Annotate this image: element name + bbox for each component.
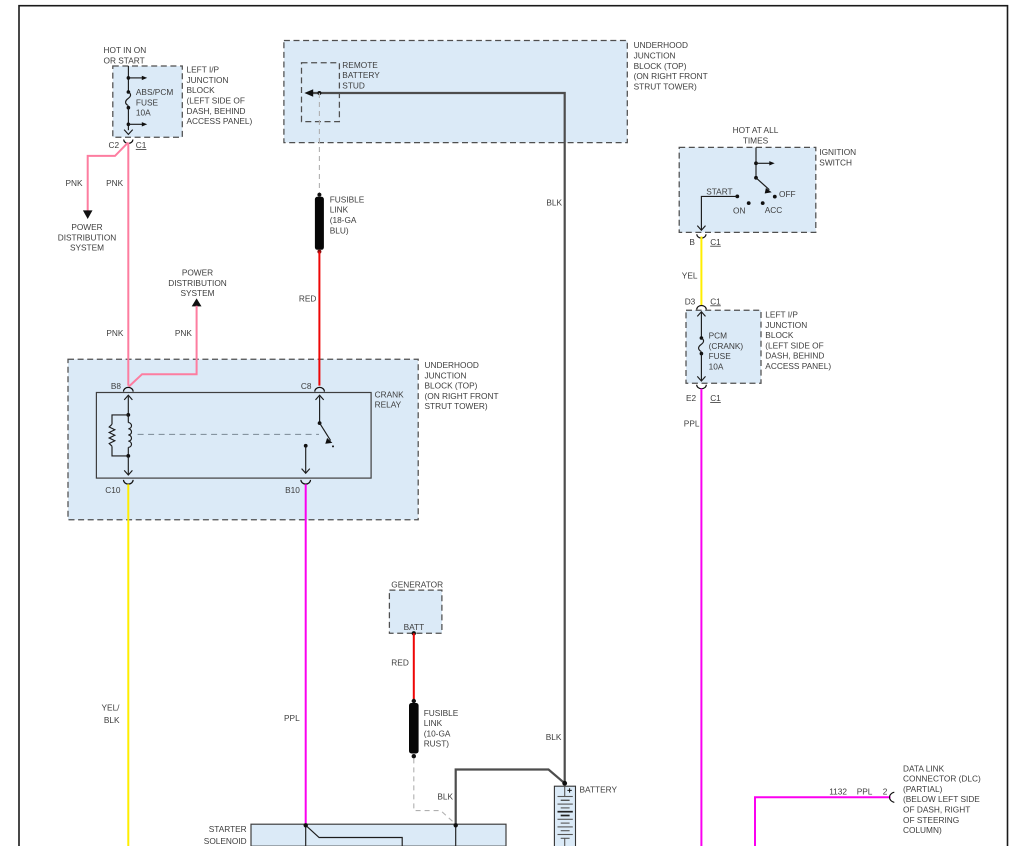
svg-text:RUST): RUST) <box>424 739 450 749</box>
svg-text:ABS/PCM: ABS/PCM <box>136 87 173 97</box>
svg-text:(LEFT SIDE OF: (LEFT SIDE OF <box>187 96 245 106</box>
pin E2 / connector C1 (arc terminal below PCM fuse box) <box>686 385 721 403</box>
fusible link F4: FUSIBLE LINK (10-GA RUST) <box>409 699 419 759</box>
relay armature linkage (dashed) <box>138 433 319 435</box>
svg-text:BATTERY: BATTERY <box>580 784 618 794</box>
svg-text:DISTRIBUTION: DISTRIBUTION <box>168 278 227 288</box>
label: PNK (left) <box>66 178 84 188</box>
svg-text:LINK: LINK <box>424 718 443 728</box>
wire: BLK from solenoid node to battery positive <box>456 770 565 826</box>
svg-text:START: START <box>706 187 732 197</box>
svg-text:BLK: BLK <box>437 792 453 802</box>
svg-text:BLOCK (TOP): BLOCK (TOP) <box>425 381 478 391</box>
label: YEL <box>682 270 698 280</box>
svg-text:JUNCTION: JUNCTION <box>187 75 229 85</box>
svg-text:JUNCTION: JUNCTION <box>634 51 676 61</box>
svg-text:HOT AT ALL: HOT AT ALL <box>733 125 779 135</box>
label: circuit 1132 PPL 2 <box>829 787 888 797</box>
label: PNK (fourth, near relay) <box>175 328 193 338</box>
svg-text:BLOCK: BLOCK <box>187 85 216 95</box>
label: FUSIBLE LINK (18-GA BLU) <box>330 194 365 235</box>
svg-text:1132: 1132 <box>829 787 847 797</box>
svg-text:C1: C1 <box>136 140 147 150</box>
svg-text:UNDERHOOD: UNDERHOOD <box>634 40 688 50</box>
wire: PPL from E2 down off page <box>700 389 702 846</box>
svg-text:OFF: OFF <box>779 189 796 199</box>
svg-text:PNK: PNK <box>66 178 84 188</box>
label: STARTER SOLENOID <box>204 824 247 846</box>
wire: PNK from C2 to power distribution (diagonal, horizontal, vertical, arrow) <box>83 143 128 219</box>
svg-text:10A: 10A <box>709 362 724 372</box>
svg-text:PNK: PNK <box>175 328 193 338</box>
pin BATT of generator (label and node) <box>404 622 425 635</box>
svg-text:SYSTEM: SYSTEM <box>180 288 214 298</box>
svg-text:B10: B10 <box>285 485 300 495</box>
wire: YEL from ignition B to PCM fuse D3 <box>700 237 702 306</box>
label: UNDERHOOD JUNCTION BLOCK (TOP) (ON RIGHT FRONT STRUT TOWER) <box>425 360 499 411</box>
wire: RED from generator BATT to fusible link F4 <box>413 633 415 701</box>
svg-text:(18-GA: (18-GA <box>330 215 357 225</box>
svg-text:(ON RIGHT FRONT: (ON RIGHT FRONT <box>425 391 499 401</box>
wire: PNK from C1 down to relay pin B8 <box>127 143 129 386</box>
wire: PNK branch from power distribution arrow to relay pin B8 <box>129 306 197 387</box>
relay switch contacts (C8 to B10, open blade) <box>302 395 334 473</box>
svg-text:D3: D3 <box>685 296 696 306</box>
svg-text:IGNITION: IGNITION <box>819 147 856 157</box>
label: BLK (lower, near battery) <box>546 732 562 742</box>
relay coil with parallel resistor (left leg B8 to C10) <box>109 395 132 475</box>
svg-text:C1: C1 <box>710 296 721 306</box>
label: FUSIBLE LINK (10-GA RUST) <box>424 708 459 749</box>
svg-text:ACCESS PANEL): ACCESS PANEL) <box>765 361 831 371</box>
svg-text:BLK: BLK <box>104 715 120 725</box>
wire: unfused gray dashed from fusible link F4 to solenoid BLK node <box>414 758 456 823</box>
svg-text:(10-GA: (10-GA <box>424 728 451 738</box>
svg-text:OF STEERING: OF STEERING <box>903 815 959 825</box>
svg-text:BATTERY: BATTERY <box>342 70 380 80</box>
label: PPL (left) <box>284 713 300 723</box>
svg-text:10A: 10A <box>136 108 151 118</box>
label: HOT IN ON OR START <box>104 45 147 65</box>
fuse F3: PCM (CRANK) FUSE 10A <box>697 312 743 381</box>
svg-text:C10: C10 <box>105 485 121 495</box>
fuse F1: ABS/PCM FUSE 10A (bus bar, taps, fuse squiggle) <box>124 66 173 134</box>
svg-text:POWER: POWER <box>71 222 102 232</box>
label: RED (lower) <box>391 658 409 668</box>
svg-text:ACCESS PANEL): ACCESS PANEL) <box>187 116 253 126</box>
svg-text:FUSE: FUSE <box>136 97 159 107</box>
svg-text:YEL/: YEL/ <box>102 703 121 713</box>
ignition switch internals (feed, rotor arrow, contacts) <box>697 147 795 230</box>
svg-text:PNK: PNK <box>106 328 124 338</box>
label: REMOTE BATTERY STUD <box>342 60 380 91</box>
svg-text:RED: RED <box>391 658 409 668</box>
svg-text:BLK: BLK <box>546 197 562 207</box>
svg-text:BLK: BLK <box>546 732 562 742</box>
svg-text:DISTRIBUTION: DISTRIBUTION <box>58 232 117 242</box>
svg-text:TIMES: TIMES <box>743 135 769 145</box>
svg-text:PCM: PCM <box>709 331 728 341</box>
svg-text:UNDERHOOD: UNDERHOOD <box>425 360 479 370</box>
svg-text:HOT IN ON: HOT IN ON <box>104 45 147 55</box>
svg-text:C1: C1 <box>710 237 721 247</box>
wire: PPL to DATA LINK CONNECTOR (horizontal with connector paren) <box>755 792 894 846</box>
fusible link F2: FUSIBLE LINK (18-GA BLU) <box>315 193 324 254</box>
svg-text:(BELOW LEFT SIDE: (BELOW LEFT SIDE <box>903 794 980 804</box>
label: LEFT I/P JUNCTION BLOCK (LEFT SIDE OF DASH, BEHIND ACCESS PANEL) second <box>765 310 831 372</box>
svg-text:PPL: PPL <box>857 787 873 797</box>
svg-text:RED: RED <box>299 293 317 303</box>
solenoid internal wiring (PPL node, BLK node, internal leads) <box>304 823 458 846</box>
label: POWER DISTRIBUTION SYSTEM (second, with up arrow) <box>168 268 227 307</box>
svg-text:BATT: BATT <box>404 622 425 632</box>
svg-text:POWER: POWER <box>182 268 213 278</box>
svg-text:FUSIBLE: FUSIBLE <box>424 708 459 718</box>
starter solenoid box (partial, bottom edge of page) <box>251 824 506 846</box>
wire: YEL/BLK from C10 down off page <box>127 484 129 846</box>
svg-text:JUNCTION: JUNCTION <box>765 320 807 330</box>
wire: unfused gray dashed from stud node to fusible link F2 <box>318 93 320 195</box>
svg-text:LEFT I/P: LEFT I/P <box>187 65 220 75</box>
junction block U3: UNDERHOOD JUNCTION BLOCK (TOP) outer dashed box (remote battery stud) <box>284 41 627 143</box>
svg-text:(LEFT SIDE OF: (LEFT SIDE OF <box>765 340 823 350</box>
svg-text:C1: C1 <box>710 393 721 403</box>
svg-text:(CRANK): (CRANK) <box>709 341 744 351</box>
junction block U2: UNDERHOOD JUNCTION BLOCK (dashed box around crank relay) <box>68 359 418 520</box>
junction block U1: LEFT I/P JUNCTION BLOCK (dashed box, ABS/PCM fuse) <box>113 66 183 137</box>
svg-text:(ON RIGHT FRONT: (ON RIGHT FRONT <box>634 71 708 81</box>
label: POWER DISTRIBUTION SYSTEM (left) <box>58 222 117 253</box>
svg-text:C2: C2 <box>109 140 120 150</box>
svg-text:LINK: LINK <box>330 205 349 215</box>
pin C8 (arc terminal and label) <box>301 381 325 391</box>
label: BLK (at solenoid node) <box>437 792 453 802</box>
svg-text:E2: E2 <box>686 393 697 403</box>
relay K1: CRANK RELAY inner box <box>96 393 371 479</box>
generator G1: GENERATOR dashed box <box>389 590 442 633</box>
svg-text:DATA LINK: DATA LINK <box>903 763 945 773</box>
svg-text:REMOTE: REMOTE <box>342 60 378 70</box>
svg-text:(PARTIAL): (PARTIAL) <box>903 784 943 794</box>
remote battery stud inner dashed box <box>302 63 340 122</box>
label: DATA LINK CONNECTOR (DLC) (PARTIAL) (BELOW LEFT SIDE OF DASH, RIGHT OF STEERING COLUMN) <box>903 763 981 835</box>
svg-text:2: 2 <box>883 787 888 797</box>
svg-text:B8: B8 <box>111 381 122 391</box>
wire: BLK from remote battery stud to battery (left arrow, node, long vertical) <box>304 89 564 783</box>
svg-text:JUNCTION: JUNCTION <box>425 370 467 380</box>
svg-text:CONNECTOR (DLC): CONNECTOR (DLC) <box>903 774 981 784</box>
svg-text:ON: ON <box>733 206 745 216</box>
pin D3 / connector C1 (arc terminal above PCM fuse box) <box>685 296 721 309</box>
label: CRANK RELAY <box>375 389 405 409</box>
label: HOT AT ALL TIMES <box>733 125 779 145</box>
svg-text:BLOCK: BLOCK <box>765 330 794 340</box>
svg-text:CRANK: CRANK <box>375 389 405 399</box>
svg-text:OR START: OR START <box>104 56 145 66</box>
svg-text:BLU): BLU) <box>330 225 349 235</box>
svg-text:SOLENOID: SOLENOID <box>204 836 247 846</box>
label: YEL/BLK <box>102 703 121 725</box>
svg-text:STARTER: STARTER <box>209 824 247 834</box>
svg-text:B: B <box>689 237 695 247</box>
svg-text:DASH, BEHIND: DASH, BEHIND <box>765 351 824 361</box>
switch S1: IGNITION SWITCH dashed box <box>679 147 816 232</box>
svg-text:DASH, BEHIND: DASH, BEHIND <box>187 106 246 116</box>
svg-text:SWITCH: SWITCH <box>819 157 852 167</box>
svg-text:STRUT TOWER): STRUT TOWER) <box>425 401 488 411</box>
label: BLK (upper) <box>546 197 562 207</box>
svg-text:PNK: PNK <box>106 178 124 188</box>
pin B8 (arc terminal and label) <box>111 381 133 391</box>
svg-text:ACC: ACC <box>765 205 783 215</box>
label: LEFT I/P JUNCTION BLOCK (LEFT SIDE OF DASH, BEHIND ACCESS PANEL) <box>187 65 253 127</box>
svg-text:RELAY: RELAY <box>375 400 402 410</box>
label: PNK (third, near relay) <box>106 328 124 338</box>
label: IGNITION SWITCH <box>819 147 856 167</box>
junction block U4: LEFT I/P JUNCTION BLOCK dashed box (PCM fuse) <box>686 310 761 383</box>
svg-text:STUD: STUD <box>342 81 365 91</box>
wire: RED from fusible link F2 to relay pin C8 <box>318 252 320 386</box>
svg-text:FUSIBLE: FUSIBLE <box>330 194 365 204</box>
svg-text:SYSTEM: SYSTEM <box>70 243 104 253</box>
svg-text:GENERATOR: GENERATOR <box>391 580 443 590</box>
label: UNDERHOOD JUNCTION BLOCK (TOP) (ON RIGHT FRONT STRUT TOWER) upper <box>634 40 708 91</box>
svg-text:BLOCK (TOP): BLOCK (TOP) <box>634 61 687 71</box>
label: PNK (second) <box>106 178 124 188</box>
svg-text:FUSE: FUSE <box>709 351 732 361</box>
wire: PPL from B10 down to starter solenoid <box>305 484 307 825</box>
label: GENERATOR <box>391 580 443 590</box>
svg-text:C8: C8 <box>301 381 312 391</box>
svg-text:LEFT I/P: LEFT I/P <box>765 310 798 320</box>
svg-text:PPL: PPL <box>684 418 700 428</box>
pin B / connector C1 of ignition switch <box>689 234 721 247</box>
svg-text:OF DASH, RIGHT: OF DASH, RIGHT <box>903 805 970 815</box>
label: RED (upper) <box>299 293 317 303</box>
pin B10 (arc terminal and label) <box>285 480 310 495</box>
battery BT1: BATTERY symbol <box>554 781 575 846</box>
svg-text:COLUMN): COLUMN) <box>903 825 942 835</box>
svg-text:YEL: YEL <box>682 270 698 280</box>
pin C10 (arc terminal and label) <box>105 480 133 495</box>
label: PPL (right) <box>684 418 700 428</box>
svg-text:PPL: PPL <box>284 713 300 723</box>
svg-text:STRUT TOWER): STRUT TOWER) <box>634 81 697 91</box>
label: BATTERY <box>580 784 618 794</box>
connector C2/C1 at fuse box bottom (arc terminals) <box>109 140 147 151</box>
